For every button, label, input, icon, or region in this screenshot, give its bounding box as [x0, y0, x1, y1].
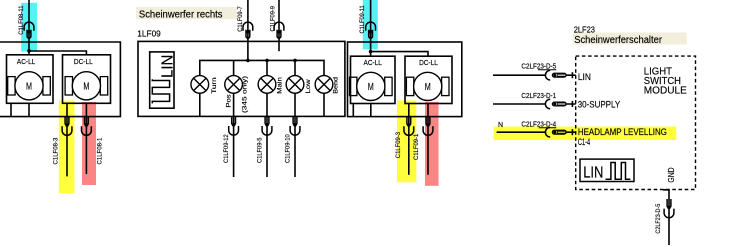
motor AC-LL left	[8, 72, 51, 100]
wire Low lamp top	[294, 60, 296, 75]
node bus junction Low	[293, 59, 297, 63]
svg-text:Low: Low	[305, 79, 312, 93]
LIN interface box	[580, 159, 634, 181]
DC-LL inner box right	[405, 56, 452, 103]
wire Low C1LF09-10	[294, 93, 296, 177]
node junction cyan branch right	[369, 50, 373, 54]
wire yellow C1LF09-3	[408, 104, 410, 175]
highlight beige title Scheinwerfer rechts	[136, 7, 237, 19]
right motor outer box	[348, 42, 462, 117]
connector C1LF09-9	[274, 22, 284, 38]
wire AC-LL left leg	[10, 103, 12, 116]
svg-text:Scheinwerferschalter: Scheinwerferschalter	[574, 35, 663, 46]
node bus junction Main	[265, 59, 269, 63]
motor DC-LL left	[65, 72, 108, 100]
svg-text:30-SUPPLY: 30-SUPPLY	[578, 99, 621, 109]
wire red C1LF09-1	[427, 104, 429, 175]
svg-text:C1LF09-5: C1LF09-5	[256, 137, 263, 163]
wire HEADLAMP LEVELLING pin	[497, 131, 576, 133]
highlight cyan wire C1LF08-11	[21, 3, 37, 52]
LIN interface square wave	[606, 163, 631, 180]
highlight yellow wire C1LF09-3	[397, 101, 416, 183]
highlight beige title Scheinwerferschalter	[573, 33, 687, 45]
pin tick 30-SUPPLY	[571, 101, 573, 107]
highlight cyan wire C1LF09-11	[363, 0, 378, 49]
motor DC-LL right	[406, 72, 449, 100]
wire 30-SUPPLY pin	[493, 103, 576, 105]
connector C1LF09-5	[262, 116, 272, 135]
svg-text:LIN: LIN	[159, 55, 176, 78]
svg-text:C1LF09-11: C1LF09-11	[359, 5, 366, 33]
connector C1LF08-3	[62, 117, 72, 136]
wire lamp bus	[200, 60, 324, 75]
connector C1LF09-1	[423, 117, 433, 136]
pin tick HEADLAMP LEVELLING	[571, 129, 573, 135]
svg-text:C2LF23-D-1: C2LF23-D-1	[521, 93, 556, 100]
underline C2LF23-D-5	[538, 69, 556, 71]
svg-text:MODULE: MODULE	[644, 85, 687, 96]
wire AC-LL centre leg	[28, 103, 30, 116]
connector C2LF23-D-4	[545, 127, 566, 137]
lamp Bend	[315, 76, 333, 94]
svg-text:C1LF08-11: C1LF08-11	[18, 5, 25, 34]
left module outer box	[0, 42, 120, 117]
wire LIN pin	[493, 74, 576, 76]
connector C2LF23-D-5 gnd	[664, 199, 674, 218]
svg-text:LIN: LIN	[578, 72, 591, 82]
svg-text:C1LF09-12: C1LF09-12	[223, 134, 230, 163]
wire yellow C1LF08-3	[66, 103, 68, 176]
svg-text:C1LF09-3: C1LF09-3	[395, 132, 402, 158]
wire GND pin	[663, 190, 669, 246]
connector C2LF23-D-5	[545, 70, 566, 80]
LIN block box	[150, 52, 174, 108]
svg-text:C1-4: C1-4	[578, 137, 590, 147]
svg-text:C1LF09-1: C1LF09-1	[413, 134, 420, 160]
svg-text:Scheinwerfer rechts: Scheinwerfer rechts	[139, 9, 223, 20]
wire cyan supply into AC-LL right	[370, 0, 372, 56]
connector C2LF23-D-1	[545, 99, 566, 109]
highlight red wire C1LF08-1	[82, 102, 96, 185]
connector C1LF09-12	[229, 116, 239, 135]
svg-text:HEADLAMP LEVELLING: HEADLAMP LEVELLING	[578, 127, 667, 137]
wire Bend lamp to box	[323, 93, 325, 116]
svg-text:Bend: Bend	[332, 77, 339, 94]
svg-text:LIN: LIN	[583, 165, 603, 182]
svg-text:Turn: Turn	[211, 77, 218, 94]
svg-text:DC-LL: DC-LL	[419, 58, 438, 67]
svg-text:AC-LL: AC-LL	[17, 57, 36, 66]
connector C1LF09-11	[366, 22, 376, 38]
svg-text:1LF09: 1LF09	[137, 28, 161, 38]
connector C1LF09-7	[243, 22, 253, 38]
svg-text:C1LF09-7: C1LF09-7	[237, 6, 244, 32]
lamp Pos	[225, 76, 243, 94]
wire supply C1LF09-7	[247, 0, 249, 60]
svg-text:AC-LL: AC-LL	[364, 58, 383, 67]
AC-LL inner box right	[351, 56, 396, 103]
lamp Main	[258, 76, 276, 94]
svg-text:Pos: Pos	[226, 94, 233, 108]
wire cyan supply into AC-LL	[28, 0, 30, 55]
svg-text:Main: Main	[276, 77, 283, 94]
highlight yellow wire C1LF08-3	[59, 101, 75, 194]
pin tick LIN	[571, 72, 573, 78]
motor AC-LL right	[350, 72, 393, 100]
wire AC-LL right left leg	[352, 104, 354, 117]
wire Pos lamp top	[233, 60, 235, 75]
svg-text:N: N	[498, 122, 503, 129]
svg-text:C1LF09-10: C1LF09-10	[284, 134, 291, 163]
connector C1LF09-3	[404, 117, 414, 136]
highlight red wire C1LF09-1	[425, 102, 439, 186]
wire C1LF09-9 stub	[278, 0, 280, 51]
AC-LL inner box	[7, 55, 54, 104]
wire Main lamp top	[266, 60, 268, 75]
svg-text:(345 only): (345 only)	[241, 76, 248, 113]
svg-text:GND: GND	[667, 167, 676, 183]
1LF09 lamp module box	[138, 41, 345, 116]
wire AC-LL right centre leg	[370, 104, 372, 117]
wire Pos C1LF09-12	[233, 93, 235, 177]
connector C1LF09-10	[290, 116, 300, 135]
svg-text:DC-LL: DC-LL	[74, 57, 93, 66]
lamp Low	[286, 76, 304, 94]
svg-text:C1LF09-9: C1LF09-9	[269, 6, 276, 32]
DC-LL inner box	[63, 55, 111, 104]
wire branch to DC-LL right	[371, 52, 428, 57]
wire Turn lamp to box	[199, 93, 201, 116]
svg-text:2LF23: 2LF23	[574, 24, 595, 34]
node bus junction C1LF09-7	[246, 59, 250, 63]
2LF23 module dashed box	[576, 56, 696, 189]
highlight yellow row HEADLAMP LEVELLING	[494, 127, 677, 141]
svg-text:C2LF23-D-5: C2LF23-D-5	[655, 204, 662, 234]
LIN block square wave	[152, 79, 169, 103]
wire red C1LF08-1	[85, 103, 87, 174]
svg-text:C1LF08-3: C1LF08-3	[52, 138, 59, 165]
wire branch to DC-LL	[29, 51, 86, 55]
underline C2LF23-D-4	[539, 127, 557, 129]
svg-text:C1LF08-1: C1LF08-1	[96, 138, 103, 165]
connector C1LF08-1	[82, 117, 92, 136]
lamp Turn	[191, 76, 209, 94]
node junction cyan branch left	[27, 49, 31, 53]
connector C1LF08-11	[24, 22, 34, 38]
wire Main C1LF09-5	[266, 93, 268, 177]
